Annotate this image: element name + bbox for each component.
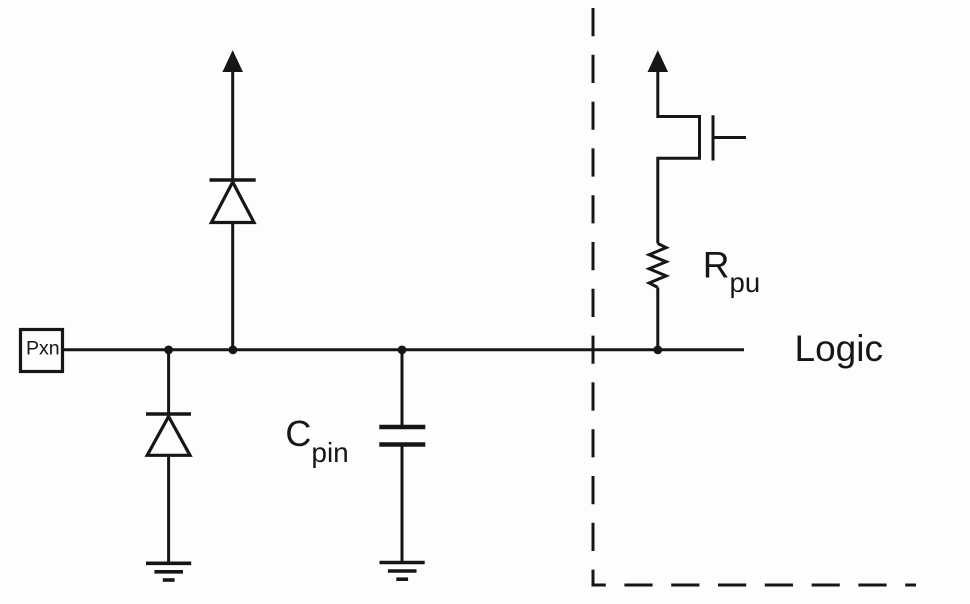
junction dot node at D2	[229, 346, 238, 355]
transistor gate lead	[713, 136, 746, 139]
wire: lower clamp diode branch (node to D1)	[167, 350, 170, 414]
diode D2 cathode bar	[210, 178, 256, 182]
pin box Pxn	[21, 330, 63, 372]
VCC arrow (pull-up)	[649, 53, 666, 72]
wire: D1 anode to ground	[167, 455, 170, 563]
junction dot node at C_pin	[398, 346, 407, 355]
ground symbol (left)	[146, 561, 191, 565]
wire: resistor to bus node	[656, 287, 659, 349]
svg-text:Pxn: Pxn	[26, 338, 60, 360]
diode D1 triangle	[147, 417, 190, 456]
wire: D2 cathode to VCC arrow	[231, 68, 234, 180]
transistor: pull-up PMOS body (drain/source path)	[658, 68, 700, 244]
svg-text:Cpin: Cpin	[285, 413, 348, 468]
junction dot node at D1	[164, 346, 173, 355]
ground symbol (capacitor)	[380, 561, 425, 565]
svg-text:Rpu: Rpu	[703, 245, 760, 298]
diode D1 cathode bar (clamp to GND)	[146, 412, 191, 416]
wire: node to capacitor	[401, 350, 404, 427]
resistor R_pu zigzag	[649, 244, 666, 288]
wire: capacitor to ground	[401, 445, 404, 563]
capacitor C_pin top plate	[379, 425, 425, 430]
wire: node to upper clamp diode D2	[231, 223, 234, 350]
transistor gate bar	[712, 115, 715, 160]
svg-text:Logic: Logic	[795, 328, 883, 369]
junction dot node at R_pu	[653, 346, 662, 355]
dashed MCU boundary	[593, 8, 916, 585]
capacitor C_pin bottom plate	[379, 442, 425, 447]
VCC arrow (left)	[224, 53, 241, 72]
diode D2 triangle (clamp to VCC)	[211, 182, 254, 223]
wire: main bus from Pxn to Logic	[63, 348, 745, 351]
